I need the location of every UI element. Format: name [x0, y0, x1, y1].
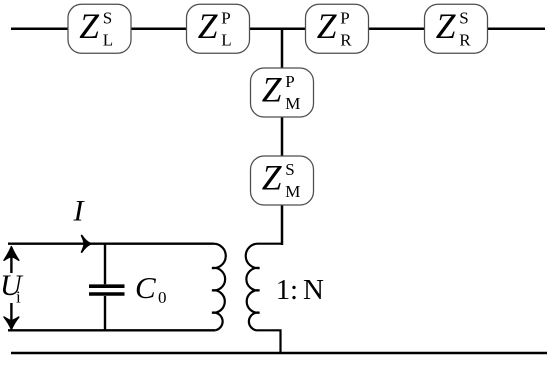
svg-text:i: i [16, 288, 21, 307]
svg-text:S: S [285, 160, 294, 179]
svg-text:Z: Z [198, 6, 219, 46]
wire source loop bottom [8, 329, 215, 331]
impedance box ZLP [187, 4, 250, 53]
label Ui [0, 269, 24, 307]
impedance box ZRS [425, 4, 488, 53]
svg-text:0: 0 [158, 288, 167, 307]
svg-text:L: L [221, 30, 231, 49]
svg-text:P: P [285, 72, 294, 91]
impedance box ZRP [306, 4, 369, 53]
wire source left vertical lower with arrow Ui down [4, 303, 19, 329]
svg-text:P: P [340, 8, 349, 27]
impedance box ZLS [68, 4, 131, 53]
transformer secondary coil [246, 244, 282, 353]
svg-text:Z: Z [262, 158, 283, 198]
svg-text:Z: Z [79, 6, 100, 46]
svg-text:R: R [340, 30, 352, 49]
wire bottom rail [11, 352, 547, 355]
impedance box ZMP [251, 68, 314, 117]
svg-text:Z: Z [317, 6, 338, 46]
label I [73, 195, 86, 228]
capacitor C0 [89, 244, 125, 331]
wire top rail [11, 27, 545, 30]
arrow current I [82, 236, 91, 252]
svg-text:Z: Z [262, 70, 283, 110]
svg-text:L: L [103, 30, 113, 49]
svg-text:Z: Z [436, 6, 457, 46]
wire vertical branch from top rail to ZMP [281, 29, 284, 69]
impedance box ZMS [251, 156, 314, 205]
inductor primary coil [212, 244, 226, 331]
svg-text:M: M [285, 94, 300, 113]
label 1:N [276, 274, 324, 306]
svg-text::: : [290, 274, 298, 306]
wire ZMS to transformer secondary [281, 204, 284, 245]
svg-text:N: N [303, 274, 324, 306]
wire source loop top [8, 242, 214, 244]
svg-text:S: S [103, 8, 112, 27]
svg-text:R: R [459, 30, 471, 49]
svg-text:C: C [135, 270, 156, 305]
wire source left vertical upper with arrow Ui up [4, 247, 19, 273]
svg-text:1: 1 [276, 274, 291, 306]
wire between ZMP and ZMS [281, 116, 284, 157]
label C0 [135, 270, 167, 307]
svg-text:S: S [459, 8, 468, 27]
svg-text:P: P [221, 8, 230, 27]
svg-text:M: M [285, 182, 300, 201]
